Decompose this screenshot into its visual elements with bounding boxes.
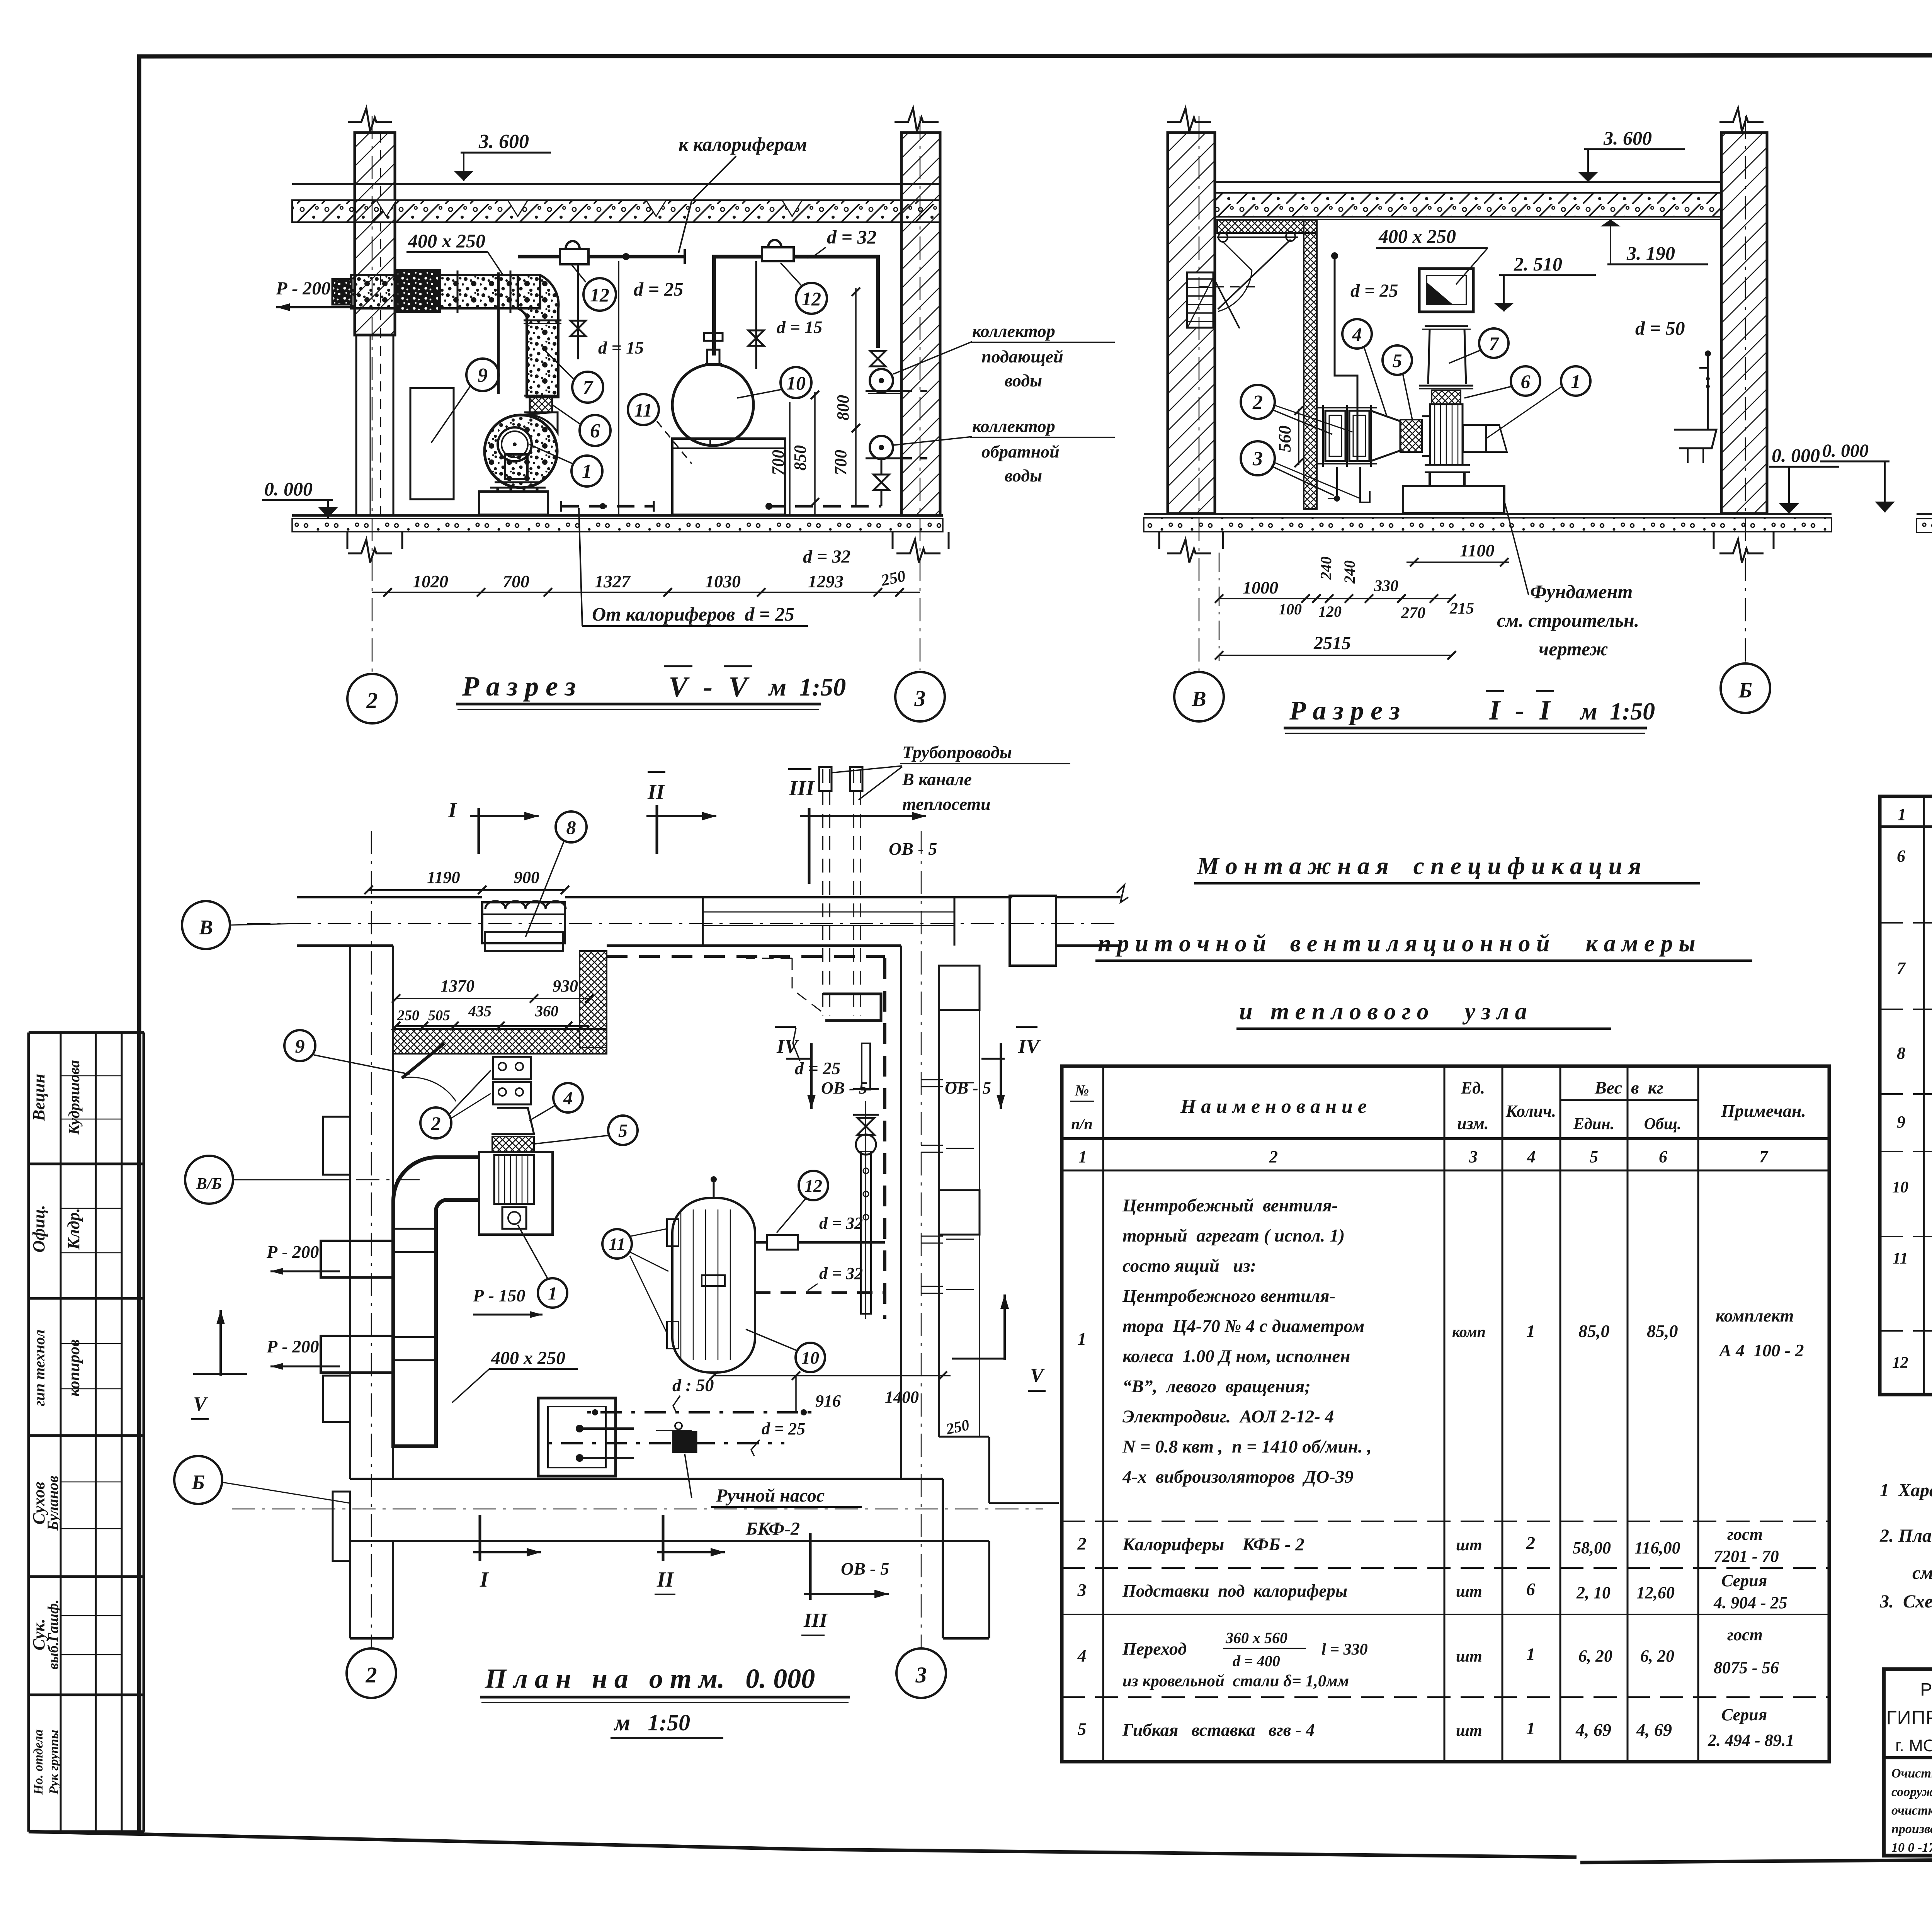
svg-text:А 4 100 - 2: А 4 100 - 2 [1718, 1340, 1804, 1360]
callout circle 7 (I-I) [1479, 328, 1509, 358]
svg-text:-: - [1515, 695, 1524, 726]
svg-text:1000: 1000 [1243, 578, 1278, 597]
svg-text:м 1:50: м 1:50 [613, 1710, 690, 1735]
svg-text:Офиц.: Офиц. [29, 1205, 48, 1252]
svg-text:II: II [647, 780, 665, 804]
svg-text:3: 3 [914, 686, 926, 711]
fan motor mount [505, 454, 527, 479]
callout circle 11 [628, 394, 659, 425]
svg-text:Колич.: Колич. [1505, 1102, 1556, 1121]
svg-text:d = 25: d = 25 [795, 1058, 840, 1078]
svg-text:торный агрегат ( испол. 1): торный агрегат ( испол. 1) [1122, 1226, 1345, 1246]
duct flanges [457, 270, 459, 313]
svg-text:4-х виброизоляторов ДО-39: 4-х виброизоляторов ДО-39 [1122, 1467, 1354, 1487]
svg-text:3. 600: 3. 600 [1603, 127, 1652, 149]
svg-text:360: 360 [535, 1002, 558, 1020]
section I-I column footings [1158, 532, 1160, 549]
plan grid line Б horizontal [232, 1509, 1043, 1510]
svg-text:Б: Б [191, 1471, 205, 1494]
section I-I tapered stack 7 [1428, 329, 1430, 384]
svg-text:360 х 560: 360 х 560 [1225, 1629, 1287, 1647]
grid bubble 2 bottom (plan) [347, 1648, 396, 1698]
section I-I heaters 2 [1325, 411, 1345, 461]
spec table header lines [1062, 1137, 1829, 1140]
svg-text:4: 4 [563, 1088, 573, 1109]
svg-text:d = 32: d = 32 [819, 1214, 863, 1233]
plan heaters 2 [493, 1057, 531, 1079]
section V-V partition line [618, 261, 619, 515]
svg-text:Р а з р е з: Р а з р е з [462, 671, 576, 702]
svg-text:Кудряшова: Кудряшова [65, 1060, 83, 1135]
plan grid line 3 [921, 831, 922, 1648]
fan base & vibroisolators [495, 481, 541, 483]
plan grid line В/Б horizontal [236, 1179, 425, 1180]
svg-text:11: 11 [609, 1234, 625, 1254]
section mark I bottom [479, 1515, 481, 1561]
svg-text:l = 330: l = 330 [1321, 1641, 1368, 1658]
plan pump box (ручной насос) [538, 1398, 616, 1476]
svg-text:9: 9 [1897, 1112, 1905, 1131]
svg-text:Рук группы: Рук группы [47, 1730, 61, 1795]
svg-text:состо ящий из:: состо ящий из: [1122, 1256, 1256, 1276]
grid bubble В/Б (plan) [185, 1156, 233, 1204]
plan heat riser caps [819, 767, 832, 791]
svg-text:Электродвиг. АОЛ 2-12- 4: Электродвиг. АОЛ 2-12- 4 [1122, 1407, 1334, 1427]
svg-text:г. МОСКВА: г. МОСКВА [1895, 1736, 1932, 1755]
svg-text:воды: воды [1005, 371, 1042, 390]
svg-text:комп: комп [1452, 1323, 1486, 1340]
svg-text:ГИПРОКОММУНВОДОКАНАЛ: ГИПРОКОММУНВОДОКАНАЛ [1886, 1707, 1932, 1728]
svg-text:d = 15: d = 15 [598, 338, 644, 357]
svg-text:10: 10 [1892, 1179, 1908, 1196]
svg-text:3: 3 [1469, 1147, 1478, 1166]
svg-text:6: 6 [1659, 1147, 1667, 1166]
svg-text:В/Б: В/Б [196, 1175, 222, 1193]
heater mounting flanges [1322, 405, 1324, 467]
svg-text:шт: шт [1456, 1536, 1482, 1554]
svg-text:0. 000: 0. 000 [1772, 444, 1820, 466]
svg-text:5: 5 [618, 1121, 628, 1141]
svg-text:12: 12 [590, 284, 609, 306]
plan dims 1190/900 [369, 889, 565, 891]
svg-text:4: 4 [1527, 1147, 1536, 1166]
plan air intake louver 8 [482, 902, 565, 943]
svg-text:колеса 1.00 Д ном, исполнен: колеса 1.00 Д ном, исполнен [1122, 1346, 1350, 1366]
svg-text:3. Схемы систем вентиляци: 3. Схемы систем вентиляции см. на листе … [1879, 1591, 1932, 1612]
svg-text:2: 2 [1526, 1533, 1535, 1553]
svg-text:4, 69: 4, 69 [1575, 1720, 1611, 1740]
svg-text:6, 20: 6, 20 [1640, 1647, 1674, 1665]
svg-text:560: 560 [1275, 425, 1294, 452]
section V-V right column (hatched brick) [901, 133, 940, 515]
callout circle 12 second [796, 283, 827, 314]
section I-I flexible insert 5 [1400, 420, 1422, 452]
svg-text:производительностью: производительностью [1891, 1822, 1932, 1836]
callout circle 2 (plan) [420, 1107, 451, 1138]
svg-text:930: 930 [553, 976, 578, 995]
svg-text:400 х 250: 400 х 250 [491, 1348, 565, 1368]
svg-text:330: 330 [1374, 577, 1398, 595]
svg-text:d = 32: d = 32 [827, 226, 877, 248]
svg-text:1: 1 [1526, 1718, 1535, 1738]
section V-V boiler tank 10 [672, 364, 753, 446]
spec table outer [1062, 1066, 1829, 1762]
grid bubble 3 [895, 672, 945, 721]
svg-text:III: III [803, 1609, 828, 1631]
callout circle 3 (I-I) [1241, 441, 1275, 475]
svg-text:гост: гост [1727, 1525, 1763, 1544]
svg-text:“В”, левого вращения;: “В”, левого вращения; [1122, 1376, 1311, 1397]
svg-text:1327: 1327 [595, 572, 631, 591]
plan door 9 swing [402, 1043, 444, 1078]
svg-text:комплект: комплект [1716, 1306, 1794, 1325]
svg-text:2: 2 [431, 1112, 441, 1134]
section V-V exhaust duct through wall [351, 275, 540, 308]
svg-text:58,00: 58,00 [1573, 1538, 1611, 1557]
dashed guide lines top-right [792, 958, 823, 1012]
plan pipe tank to wall d=32 [755, 1241, 885, 1244]
svg-text:9: 9 [478, 364, 488, 386]
svg-text:3. 600: 3. 600 [478, 131, 529, 153]
svg-text:Един.: Един. [1573, 1115, 1614, 1133]
svg-text:0. 000: 0. 000 [1822, 441, 1869, 461]
svg-text:116,00: 116,00 [1634, 1538, 1680, 1557]
svg-text:7: 7 [1489, 333, 1500, 354]
svg-text:Р - 200: Р - 200 [276, 278, 330, 299]
plan bottom wall (axis Б) [350, 1478, 943, 1480]
section V-V duct elbow down [518, 275, 558, 397]
svg-text:Фундамент: Фундамент [1530, 581, 1633, 602]
svg-text:1400: 1400 [885, 1388, 919, 1407]
section V-V left column pilaster below [355, 335, 357, 515]
svg-text:Р С Ф С Р М Ж К Х: Р С Ф С Р М Ж К Х [1920, 1679, 1932, 1699]
svg-text:обратной: обратной [981, 442, 1060, 461]
svg-text:ОВ - 5: ОВ - 5 [841, 1559, 889, 1579]
svg-text:d = 400: d = 400 [1233, 1652, 1280, 1670]
svg-text:шт: шт [1456, 1648, 1482, 1665]
svg-text:гост: гост [1727, 1625, 1763, 1644]
callout circle 9 [466, 359, 499, 391]
svg-text:I: I [1539, 695, 1551, 726]
svg-text:1: 1 [1571, 371, 1581, 392]
plan dash-dot pipe d=25 bottom [548, 1442, 784, 1444]
svg-text:I: I [1489, 695, 1501, 726]
svg-text:2: 2 [1269, 1147, 1278, 1166]
svg-text:6: 6 [1897, 847, 1905, 866]
grid bubble Б (I-I) [1721, 663, 1770, 713]
svg-text:Гибкая вставка вгв - 4: Гибкая вставка вгв - 4 [1122, 1720, 1315, 1740]
vec v kg split [1560, 1099, 1698, 1101]
svg-text:9: 9 [295, 1035, 305, 1057]
svg-text:1: 1 [1898, 805, 1906, 824]
svg-text:1030: 1030 [705, 572, 741, 591]
svg-text:2. Планы и разрезы с нанес: 2. Планы и разрезы с нанесением систем в… [1879, 1526, 1932, 1546]
svg-text:Р - 200: Р - 200 [266, 1242, 319, 1262]
section V-V door item 9 [410, 388, 454, 499]
svg-text:0. 000: 0. 000 [264, 478, 313, 500]
svg-text:6: 6 [1521, 371, 1531, 392]
plan heat risers (dashed double) top-right [822, 769, 823, 1016]
svg-text:Переход: Переход [1122, 1639, 1187, 1658]
section V-V vertical duct line [497, 272, 500, 394]
svg-text:ОВ - 5: ОВ - 5 [889, 839, 937, 859]
svg-text:М о н т а ж н а я с п е ц и: М о н т а ж н а я с п е ц и ф и к а ц и … [1197, 852, 1641, 879]
svg-text:П л а н н а о т м. 0. 00: П л а н н а о т м. 0. 000 [485, 1663, 815, 1694]
section I-I pipe d=25 [1331, 252, 1338, 259]
svg-text:d = 25: d = 25 [762, 1419, 805, 1438]
svg-text:85,0: 85,0 [1647, 1321, 1678, 1341]
svg-text:1: 1 [1078, 1147, 1087, 1166]
section I-I ceiling slab [1215, 181, 1721, 183]
section I-I insulated exhaust duct (cross-hatched) [1217, 220, 1317, 233]
section V-V heating pipe run d=25 [518, 255, 685, 259]
svg-text:2: 2 [1252, 391, 1263, 413]
callout circle 10 [781, 367, 811, 398]
plan tank 10 [672, 1198, 755, 1373]
tank pedestal 11 [672, 439, 785, 515]
plan flexible insert 5 [492, 1136, 534, 1152]
valve drop to tank [755, 261, 757, 369]
svg-text:см. на листах ОВ-7, ОВ-8: см. на листах ОВ-7, ОВ-8 , ОВ—4 [1912, 1563, 1932, 1583]
section V-V second pipe branch [714, 257, 878, 356]
svg-text:8: 8 [566, 816, 576, 838]
callout circle 4 (plan) [553, 1083, 583, 1112]
section II-II floor slab [1917, 513, 1932, 515]
svg-text:IV: IV [776, 1036, 799, 1058]
callout circle 5 (I-I) [1383, 345, 1412, 375]
svg-text:250: 250 [944, 1416, 971, 1438]
svg-text:Серия: Серия [1721, 1705, 1767, 1724]
svg-text:Центробежного вентиля-: Центробежного вентиля- [1122, 1286, 1335, 1306]
svg-text:85,0: 85,0 [1578, 1321, 1610, 1341]
svg-text:1100: 1100 [1460, 541, 1494, 560]
svg-text:см. строительн.: см. строительн. [1497, 609, 1639, 631]
plan right outer pilasters [939, 966, 980, 1010]
svg-text:1: 1 [1078, 1329, 1087, 1349]
fan feet [1429, 472, 1431, 486]
svg-text:400 х 250: 400 х 250 [408, 230, 485, 252]
svg-text:3: 3 [915, 1662, 927, 1687]
svg-text:гип технол: гип технол [31, 1330, 48, 1407]
svg-text:7: 7 [1759, 1147, 1769, 1166]
svg-text:Вес в кг: Вес в кг [1594, 1078, 1663, 1097]
svg-text:4: 4 [1077, 1646, 1087, 1665]
svg-text:В: В [1191, 687, 1206, 711]
grid bubble Б (plan) [174, 1456, 222, 1504]
svg-text:Трубопроводы: Трубопроводы [902, 742, 1012, 762]
plan left wall pilasters [323, 1117, 350, 1175]
callout circle 6 (I-I) [1511, 366, 1540, 396]
svg-text:2: 2 [366, 688, 378, 713]
svg-text:7: 7 [583, 377, 594, 399]
plan dashed d=25 loop along top [607, 955, 885, 958]
svg-text:215: 215 [1449, 600, 1474, 617]
svg-text:1: 1 [1526, 1644, 1535, 1664]
svg-text:БКФ-2: БКФ-2 [745, 1519, 800, 1539]
svg-text:Общ.: Общ. [1644, 1115, 1682, 1133]
svg-text:10: 10 [786, 372, 806, 394]
svg-text:10: 10 [801, 1348, 819, 1368]
svg-text:1293: 1293 [808, 572, 844, 591]
svg-text:Р - 200: Р - 200 [266, 1337, 319, 1356]
svg-text:Буланов: Буланов [44, 1476, 61, 1531]
section V-V left column (hatched brick) [355, 133, 395, 335]
flex insert [1432, 390, 1461, 404]
plan riser pipes along right wall [883, 958, 886, 1319]
svg-text:435: 435 [468, 1002, 492, 1020]
section V-V flexible insert 6 [530, 396, 552, 412]
section I-I floor slab [1144, 513, 1832, 515]
fan motor [1463, 425, 1486, 452]
svg-text:коллектор: коллектор [972, 321, 1055, 341]
grid bubble 3 bottom (plan) [896, 1648, 946, 1698]
svg-text:чертеж: чертеж [1539, 638, 1608, 660]
section V-V air collector 12 (second) [762, 247, 794, 261]
svg-text:120: 120 [1318, 603, 1342, 620]
grid bubble В (plan) [182, 901, 230, 949]
section V-V grid line 3 [920, 116, 921, 670]
section mark V right (plan) [1003, 1294, 1006, 1360]
svg-text:6: 6 [590, 420, 600, 442]
section V-V collector taps on wall [870, 351, 886, 366]
callout circle 5 (plan) [608, 1116, 638, 1145]
svg-text:к калориферам: к калориферам [679, 133, 807, 155]
plan transition 4 [492, 1108, 534, 1134]
svg-text:900: 900 [514, 868, 539, 887]
svg-text:V: V [728, 671, 750, 703]
svg-text:из кровельной стали δ= 1,0мм: из кровельной стали δ= 1,0мм [1122, 1672, 1349, 1690]
section mark V left (plan) [219, 1310, 222, 1376]
callout circle 10 (plan) [796, 1343, 825, 1372]
svg-text:700: 700 [503, 572, 529, 591]
svg-text:изм.: изм. [1457, 1114, 1489, 1133]
svg-text:I: I [480, 1568, 489, 1592]
svg-text:250: 250 [879, 567, 907, 590]
svg-text:1370: 1370 [440, 976, 474, 995]
section I-I right column hatched [1721, 133, 1767, 514]
section I-I lower dims row [1219, 598, 1452, 599]
section I-I washbasin [1707, 354, 1709, 429]
svg-text:d = 50: d = 50 [1635, 317, 1685, 339]
svg-text:и т е п л о в о г о у з: и т е п л о в о г о у з л а [1239, 998, 1527, 1025]
svg-text:6, 20: 6, 20 [1578, 1647, 1612, 1665]
svg-text:Но. отдела: Но. отдела [31, 1729, 46, 1795]
svg-text:d = 32: d = 32 [819, 1264, 863, 1283]
svg-text:сооружения биологической: сооружения биологической [1891, 1785, 1932, 1799]
svg-text:2. 510: 2. 510 [1514, 253, 1562, 275]
plan grid line 2 [371, 831, 372, 1648]
section V-V column footings [347, 532, 349, 549]
svg-text:выб.Гашф.: выб.Гашф. [45, 1599, 61, 1669]
svg-text:4. 904 - 25: 4. 904 - 25 [1713, 1593, 1787, 1612]
callout circle 11 (plan) [602, 1229, 632, 1259]
pump symbol [673, 1432, 696, 1452]
svg-text:8: 8 [1897, 1044, 1905, 1063]
svg-text:850: 850 [791, 445, 810, 471]
svg-text:12,60: 12,60 [1636, 1583, 1675, 1602]
svg-text:N = 0.8 квт , п = 1410 об/мин: N = 0.8 квт , п = 1410 об/мин. , [1122, 1437, 1372, 1457]
svg-text:От калориферов d = 25: От калориферов d = 25 [592, 603, 794, 625]
svg-text:3: 3 [1077, 1580, 1087, 1600]
svg-text:коллектор: коллектор [972, 416, 1055, 436]
svg-text:теплосети: теплосети [902, 794, 991, 814]
section V-V fan scroll unit 1 [485, 415, 557, 488]
svg-text:№: № [1075, 1082, 1089, 1099]
plan fan unit [479, 1152, 553, 1235]
svg-text:В: В [199, 916, 213, 939]
svg-text:воды: воды [1005, 466, 1042, 485]
svg-text:шт: шт [1456, 1722, 1482, 1740]
section V-V dash pipe at floor right [767, 505, 881, 508]
svg-text:Р - 150: Р - 150 [473, 1286, 525, 1305]
svg-text:2, 10: 2, 10 [1576, 1583, 1611, 1602]
callout circle 1 (I-I) [1561, 366, 1590, 396]
svg-text:очистки сточных вод: очистки сточных вод [1891, 1803, 1932, 1818]
duct flanges plan [393, 1228, 436, 1230]
heater feed pipes below [1328, 467, 1337, 498]
plan duct elbow to left wall [393, 1157, 479, 1446]
callout circle 1 [571, 456, 602, 486]
svg-text:2: 2 [1077, 1534, 1087, 1553]
svg-text:I: I [448, 798, 457, 822]
grid bubble В (I-I) [1174, 672, 1224, 721]
svg-text:п р и т о ч н о й в е н т и: п р и т о ч н о й в е н т и л я ц и о н … [1098, 930, 1695, 957]
tank top fittings [707, 350, 719, 365]
fan inlet cone [1422, 416, 1430, 456]
svg-text:12: 12 [804, 1176, 822, 1196]
plan dashed pipe d=32 lower [755, 1291, 885, 1294]
svg-text:10 0 -17 0 - 25.0 тыс м³/сут: 10 0 -17 0 - 25.0 тыс м³/сутки [1891, 1840, 1932, 1855]
svg-text:II: II [656, 1568, 675, 1592]
plan dash-dot pipe d=50 [587, 1411, 811, 1414]
svg-text:4: 4 [1352, 323, 1362, 345]
plan left wall [349, 946, 351, 1479]
callout circle 4 (I-I) [1342, 319, 1372, 349]
svg-text:240: 240 [1341, 560, 1358, 584]
stub flanges through right wall [921, 1079, 943, 1080]
svg-text:Р а з р е з: Р а з р е з [1289, 696, 1400, 726]
svg-text:d : 50: d : 50 [672, 1375, 714, 1395]
svg-text:-: - [703, 671, 713, 703]
svg-text:5: 5 [1078, 1719, 1087, 1739]
svg-text:700: 700 [831, 450, 850, 475]
svg-text:В канале: В канале [902, 769, 972, 789]
svg-text:8075 - 56: 8075 - 56 [1714, 1658, 1779, 1677]
svg-text:Серия: Серия [1721, 1571, 1767, 1590]
section V-V air collector 12 (first) [560, 249, 588, 264]
section I-I transition 4 [1371, 411, 1400, 461]
section V-V floor slab [292, 514, 943, 517]
fan foundation block [479, 492, 548, 515]
svg-text:Калориферы КФБ - 2: Калориферы КФБ - 2 [1122, 1534, 1304, 1555]
section V-V valve drop d=15 [577, 264, 579, 359]
svg-text:Клдр.: Клдр. [64, 1208, 83, 1250]
section V-V dimension row [372, 592, 920, 593]
svg-text:Примечан.: Примечан. [1721, 1101, 1806, 1121]
plan right outer wall segment [979, 966, 980, 1190]
section I-I left column hatched [1168, 133, 1215, 514]
svg-text:2515: 2515 [1313, 633, 1351, 653]
plan insulated intake duct (crosshatch) [580, 951, 607, 1048]
callout circle 12 (plan) [799, 1171, 828, 1200]
svg-text:Вецин: Вецин [29, 1074, 48, 1121]
svg-text:5: 5 [1393, 350, 1402, 371]
section I-I duct hanger mechanism [1217, 236, 1298, 238]
svg-text:505: 505 [428, 1007, 450, 1024]
svg-text:d = 25: d = 25 [634, 278, 684, 300]
svg-text:1: 1 [548, 1283, 557, 1304]
plan top-right corner column [1010, 896, 1056, 966]
